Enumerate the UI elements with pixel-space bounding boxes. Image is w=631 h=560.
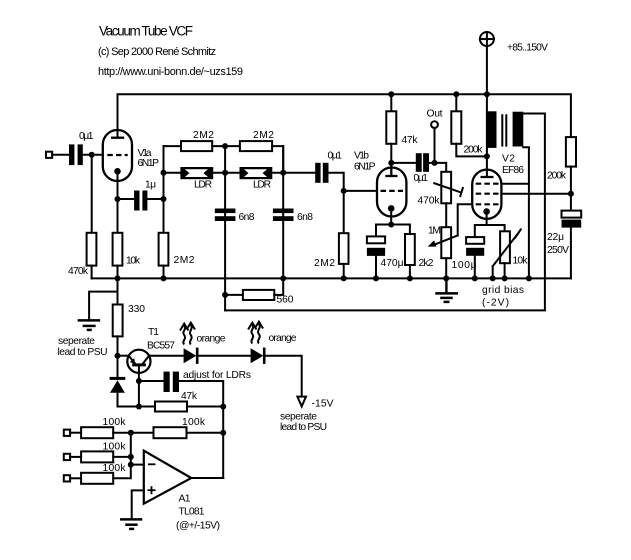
wire LDR1 to LDR2 [213, 172, 240, 174]
svg-text:0μ1: 0μ1 [414, 173, 429, 184]
svg-text:TL081: TL081 [179, 507, 205, 518]
wire base node to adjust cap [139, 380, 164, 382]
wire C3 to V1b grid [329, 173, 378, 191]
potentiometer 10k V2 cathode [493, 229, 529, 266]
svg-text:0μ1: 0μ1 [79, 131, 94, 142]
wire 470k pot to 1M pot [445, 203, 447, 227]
wire terminal 2 to 100k [70, 456, 81, 458]
wire V2 cathode junction [486, 212, 488, 226]
svg-text:+85..150V: +85..150V [507, 43, 548, 54]
wire C2 to ladder left rail [147, 198, 163, 200]
potentiometer 1M [428, 226, 458, 259]
svg-text:http://www.uni-bonn.de/~uzs159: http://www.uni-bonn.de/~uzs159 [98, 66, 243, 78]
svg-text:LDR: LDR [253, 180, 271, 191]
op-amp A1 TL081 [144, 451, 220, 532]
wire 560 right lead up to bus [274, 278, 283, 295]
resistor 100k input 1 [81, 417, 126, 438]
wire secondary top to grid bias loop [225, 114, 545, 311]
svg-text:0μ1: 0μ1 [328, 151, 343, 162]
wire secondary bottom to V2 screen rail [523, 147, 529, 278]
CV input terminal 3 [64, 475, 70, 481]
resistor 47k T1 base [155, 391, 198, 412]
ground op-amp [121, 519, 141, 529]
resistor 2M2 a (top) [181, 130, 214, 151]
svg-text:6n8: 6n8 [297, 212, 313, 223]
svg-text:seperate: seperate [58, 336, 95, 347]
svg-text:(-2V): (-2V) [482, 298, 509, 309]
triode V1b 6N1P [354, 151, 406, 217]
resistor 200k screen [451, 111, 483, 155]
wire summing node vertical [130, 433, 132, 465]
wire ladder left rail vertical [163, 146, 165, 233]
svg-text:orange: orange [269, 333, 297, 344]
svg-text:100k: 100k [103, 441, 127, 452]
svg-text:BC557: BC557 [147, 340, 175, 351]
wire T1 collector to LED1 [149, 355, 184, 357]
svg-text:22μ: 22μ [547, 232, 564, 243]
wire bus to PSU ground and 330 [117, 278, 119, 304]
wire grid node down to 470k [91, 155, 93, 233]
ground main (bus) [446, 278, 448, 293]
resistor 2M2 V1b grid leak [314, 233, 349, 269]
wire 1M bottom to ground [445, 258, 447, 293]
svg-text:2M2: 2M2 [253, 130, 274, 141]
resistor 200k output load [547, 137, 576, 181]
wire LED2 to -15V arrow [266, 356, 302, 397]
svg-text:47k: 47k [402, 135, 419, 146]
transformer secondary winding [513, 112, 524, 147]
svg-text:200k: 200k [547, 171, 567, 182]
node out [432, 160, 438, 166]
svg-text:1μ: 1μ [145, 179, 156, 190]
diode base clamp [110, 378, 126, 392]
svg-text:6n8: 6n8 [239, 212, 255, 223]
wire LDR2 to C3 [272, 172, 315, 174]
potentiometer 470k [418, 172, 463, 207]
capacitor 100u electrolytic [452, 237, 485, 271]
wire 560 left lead [225, 294, 243, 296]
svg-text:seperate: seperate [280, 412, 317, 423]
node right rail at ground bus [280, 275, 286, 281]
resistor 2M2 ladder shunt [159, 233, 195, 266]
svg-text:250V: 250V [547, 245, 569, 256]
svg-text:2M2: 2M2 [174, 255, 195, 266]
wire 200k to 22u node [570, 167, 572, 211]
svg-text:1M: 1M [428, 226, 441, 237]
wire 100k 2 to summing node [113, 456, 131, 458]
wire T1 emitter node through diode to 47k line [117, 356, 119, 379]
output terminal Out [427, 109, 443, 129]
transformer T primary winding [487, 111, 497, 148]
wire cathode to C2 [118, 198, 135, 200]
svg-text:orange: orange [197, 334, 226, 345]
wire op-amp output to rail [191, 477, 223, 479]
wire 100u to bus [474, 256, 476, 279]
svg-text:560: 560 [277, 295, 294, 306]
svg-text:Out: Out [427, 109, 443, 120]
wire emitter node to T1 [118, 355, 129, 357]
resistor 100k input 3 [81, 463, 126, 484]
svg-text:LDR: LDR [194, 180, 212, 191]
LED 1 orange [180, 323, 226, 364]
transistor T1 BC557 (PNP) [127, 327, 175, 373]
resistor 2M2 b (top) [240, 130, 274, 151]
wire V2 suppressor to 22u node [501, 193, 571, 195]
wire 100k 1 to summing node [113, 432, 153, 434]
wire 100k 3 to summing node [113, 465, 131, 479]
svg-text:(@+/-15V): (@+/-15V) [176, 521, 220, 532]
svg-text:EF86: EF86 [502, 165, 524, 176]
svg-text:T1: T1 [148, 327, 159, 338]
wire 47k to output rail [187, 406, 223, 408]
capacitor 0u1 to V1b grid [315, 151, 342, 183]
wire 22u to ground bus [570, 228, 572, 279]
resistor 47k V1b plate load [386, 111, 418, 146]
svg-text:100k: 100k [182, 417, 206, 428]
svg-text:100k: 100k [103, 417, 127, 428]
input terminal [46, 152, 52, 158]
LDR 2 [240, 167, 273, 191]
svg-text:10k: 10k [126, 255, 141, 266]
wire 47k to V1b plate [390, 144, 392, 176]
svg-text:200k: 200k [464, 145, 484, 156]
svg-text:47k: 47k [181, 391, 198, 402]
node V1b plate / C4 [388, 160, 394, 166]
svg-text:A1: A1 [179, 494, 191, 505]
svg-text:(c) Sep 2000 René Schmitz: (c) Sep 2000 René Schmitz [98, 46, 216, 58]
node V2 plate / transformer primary [484, 91, 490, 97]
transformer core [501, 115, 503, 145]
wire between 2M2 a and 2M2 b [212, 145, 240, 147]
svg-text:470μ: 470μ [381, 258, 404, 269]
wire inverting input [131, 464, 144, 466]
svg-text:lead to PSU: lead to PSU [58, 347, 108, 358]
resistor 330 [113, 304, 146, 336]
wire mid rail vertical (to grid bias line) [224, 146, 226, 310]
wire plate node to C4 [391, 162, 416, 164]
svg-text:100μ: 100μ [452, 260, 477, 271]
svg-text:6N1P: 6N1P [138, 158, 160, 169]
ground PSU (seperate lead) [79, 320, 99, 330]
pentode V2 EF86 [472, 154, 524, 219]
resistor 100k input 2 [81, 441, 126, 462]
capacitor 0u1 output coupling [414, 153, 430, 184]
svg-text:2M2: 2M2 [193, 130, 214, 141]
capacitor 470u electrolytic [367, 236, 404, 269]
wire 470u to bus [375, 256, 377, 279]
wire 330 to T1 emitter node [117, 336, 119, 378]
wire 2k2 to bus [409, 265, 411, 278]
resistor 10k V1a cathode [113, 233, 141, 266]
svg-text:grid bias: grid bias [482, 285, 524, 296]
wire C1 to V1a grid [83, 154, 103, 156]
wire 2M2 to bus [343, 264, 345, 279]
svg-text:470k: 470k [68, 266, 89, 277]
wire non-inverting input to ground [132, 490, 144, 519]
resistor 560 [243, 290, 294, 306]
wire HT supply down to bus and V2 plate [486, 46, 488, 177]
node T1 emitter [115, 353, 121, 359]
capacitor 1u [134, 179, 156, 210]
CV input terminal 2 [64, 454, 70, 460]
capacitor 6n8 a [215, 209, 255, 224]
wire top HT bus [118, 94, 571, 137]
svg-text:6N1P: 6N1P [354, 161, 376, 172]
wire terminal 3 to 100k [70, 477, 81, 479]
wire C4 to 470k pot [429, 163, 446, 172]
node mid rail at 560 line [222, 292, 228, 298]
wire 10k bottom to bus [504, 263, 506, 278]
triode V1a 6N1P [103, 130, 159, 181]
node mid rail top [222, 143, 228, 149]
wire T1 base down [138, 366, 140, 406]
wire 200k to V2 plate node [456, 144, 487, 157]
node mid rail LDR row [222, 170, 228, 176]
node left rail LDR lead [161, 170, 167, 176]
svg-text:adjust for LDRs: adjust for LDRs [183, 370, 251, 381]
wire left rail to LDR1 [164, 172, 182, 174]
svg-text:470k: 470k [418, 196, 441, 207]
wire 100k feedback to output rail [187, 432, 224, 434]
node V1b grid [341, 188, 347, 194]
wire V1b cathode junction [390, 208, 392, 224]
wire terminal 1 to 100k [70, 432, 81, 434]
svg-text:V1b: V1b [354, 151, 369, 162]
wire LED1 to LED2 [199, 355, 251, 357]
wire 10k wiper to bus [492, 266, 494, 278]
wire 2M2 b right corner down [272, 146, 283, 173]
svg-text:Vacuum Tube VCF: Vacuum Tube VCF [99, 24, 193, 39]
LDR 1 [180, 167, 213, 191]
wire 1M wiper to V2 grid [458, 204, 473, 235]
capacitor adjust for LDRs [164, 370, 252, 392]
resistor 100k feedback [154, 417, 206, 438]
wire V1b grid node down to 2M2 [343, 191, 345, 233]
capacitor 6n8 b [273, 209, 313, 224]
wire right rail vertical [282, 146, 284, 278]
svg-text:-15V: -15V [312, 399, 334, 410]
svg-text:10k: 10k [513, 256, 529, 267]
ground V2 bias [437, 293, 457, 302]
capacitor 22u 250V electrolytic [547, 211, 581, 256]
node input grid junction [89, 152, 95, 158]
node right rail LDR row [280, 170, 286, 176]
svg-text:2M2: 2M2 [314, 258, 335, 269]
svg-text:100k: 100k [103, 463, 127, 474]
CV input terminal 1 [64, 430, 70, 436]
LED 2 orange [248, 322, 297, 364]
resistor 470k input [68, 233, 96, 277]
wire bus to 47k [390, 94, 392, 111]
wire V2 screen grid to rail [501, 183, 529, 185]
wire 470k to ground bus [91, 266, 93, 279]
wire adjust cap to opamp output rail [179, 381, 223, 478]
wire 2M2 to bus [163, 266, 165, 279]
svg-text:V2: V2 [502, 154, 515, 165]
svg-text:lead to PSU: lead to PSU [280, 422, 327, 433]
wire Out to node [434, 128, 436, 163]
wire ground bus [92, 277, 571, 279]
wire 10k to bus [117, 266, 119, 279]
wire bus to 200k screen feed [455, 94, 457, 111]
wire left rail to R 2M2 a [164, 145, 182, 147]
wire V1a cathode down [117, 171, 119, 233]
-15V supply arrow [297, 397, 333, 410]
svg-text:2k2: 2k2 [419, 258, 434, 269]
node V1a cathode / C2 [115, 196, 121, 202]
svg-text:330: 330 [128, 304, 145, 315]
HT supply terminal +85..150V [480, 32, 548, 54]
capacitor 0u1 input [69, 131, 94, 165]
node ladder left rail / C2 [161, 196, 167, 202]
resistor 2k2 V1b cathode [405, 234, 434, 269]
wire input to C1 [52, 154, 69, 156]
